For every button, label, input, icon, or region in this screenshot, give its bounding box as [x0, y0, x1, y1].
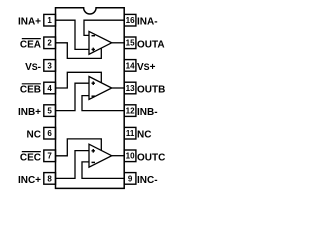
wire pin7 CEC to amp C enable (top edge) — [56, 139, 102, 156]
svg-text:CEB: CEB — [20, 85, 41, 96]
svg-text:INB+: INB+ — [18, 107, 41, 118]
amp C minus input mark — [92, 161, 96, 163]
pin 13 box — [124, 82, 136, 94]
svg-text:8: 8 — [47, 174, 52, 183]
svg-text:OUTB: OUTB — [137, 85, 165, 96]
svg-text:15: 15 — [126, 39, 135, 48]
wire amp B output to pin13 OUTB — [112, 87, 125, 89]
pin 10 box — [124, 150, 136, 162]
wire pin8 INC+ to amp C + input — [56, 151, 90, 179]
svg-text:10: 10 — [126, 152, 135, 161]
amp C plus input mark — [92, 149, 96, 153]
pin 15 box — [124, 37, 136, 49]
svg-text:7: 7 — [47, 152, 52, 161]
pin 5 box — [44, 105, 56, 117]
svg-text:INA-: INA- — [137, 17, 158, 28]
amp A plus input mark — [92, 48, 96, 52]
pin 12 box — [124, 105, 136, 117]
pin 4 box — [44, 82, 56, 94]
svg-text:4: 4 — [47, 84, 52, 93]
svg-text:11: 11 — [126, 129, 135, 138]
svg-text:VS-: VS- — [25, 62, 41, 73]
svg-text:NC: NC — [27, 130, 41, 141]
svg-text:INB-: INB- — [137, 107, 158, 118]
wire pin12 INB- to amp B - input — [82, 96, 124, 111]
IC body U1 (16-pin package outline with notch) — [56, 8, 125, 189]
overline for CEC — [22, 151, 41, 153]
svg-text:OUTC: OUTC — [137, 152, 165, 163]
svg-text:6: 6 — [47, 129, 52, 138]
svg-text:5: 5 — [47, 107, 52, 116]
pin 16 box — [124, 14, 136, 26]
wire pin16 INA- to amp A - input — [84, 20, 124, 35]
svg-text:NC: NC — [137, 130, 151, 141]
svg-text:9: 9 — [128, 174, 133, 183]
svg-text:1: 1 — [47, 16, 52, 25]
amp B minus input mark — [92, 95, 96, 97]
op-amp B triangle — [89, 77, 112, 100]
wire pin5 INB+ to amp B + input — [56, 83, 90, 110]
wire pin4 CEB to amp B enable (top edge) — [56, 72, 102, 88]
op-amp A triangle — [89, 31, 112, 54]
svg-text:INC+: INC+ — [18, 175, 41, 186]
pin 2 box — [44, 37, 56, 49]
pin 14 box — [124, 60, 136, 72]
svg-text:14: 14 — [126, 61, 135, 70]
pin 6 box — [44, 127, 56, 139]
pin 9 box — [124, 173, 136, 185]
svg-text:13: 13 — [126, 84, 135, 93]
svg-text:CEA: CEA — [20, 39, 41, 50]
pin 3 box — [44, 60, 56, 72]
svg-text:INA+: INA+ — [18, 17, 41, 28]
pin 11 box — [124, 127, 136, 139]
wire pin9 INC- to amp C - input — [82, 162, 124, 179]
amp B plus input mark — [92, 81, 96, 85]
pin 8 box — [44, 173, 56, 185]
overline for CEA — [22, 38, 41, 40]
wire pin1 INA+ to amp A + input — [56, 20, 90, 49]
wire pin2 CEA to amp A enable (bottom edge) — [56, 43, 102, 59]
overline for CEB — [22, 83, 41, 85]
wire amp A output to pin15 OUTA — [112, 42, 125, 44]
svg-text:2: 2 — [47, 39, 52, 48]
svg-text:CEC: CEC — [20, 152, 41, 163]
pin 1 box — [44, 14, 56, 26]
svg-text:INC-: INC- — [137, 175, 158, 186]
wire amp C output to pin10 OUTC — [112, 155, 125, 157]
svg-text:12: 12 — [126, 107, 135, 116]
svg-text:OUTA: OUTA — [137, 39, 165, 50]
pin 7 box — [44, 150, 56, 162]
amp A minus input mark — [92, 35, 96, 37]
op-amp C triangle — [89, 144, 112, 167]
svg-text:3: 3 — [47, 61, 52, 70]
svg-text:VS+: VS+ — [137, 62, 156, 73]
svg-text:16: 16 — [126, 16, 135, 25]
